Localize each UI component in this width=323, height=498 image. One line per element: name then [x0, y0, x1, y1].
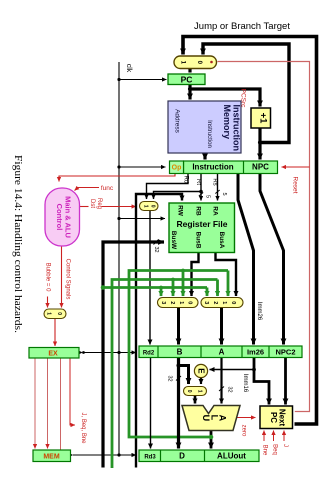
register file: [169, 203, 235, 253]
width label 32 on BusW: [153, 240, 159, 253]
wire E output to operand mux: [200, 378, 202, 385]
pin label Rs: [212, 178, 218, 185]
svg-text:1: 1: [45, 312, 51, 315]
svg-text:PC: PC: [181, 75, 193, 85]
node label J, Beq, Bne: [80, 412, 86, 444]
wire PC output to Instruction Memory address: [188, 85, 191, 100]
bubble mux: [44, 309, 66, 319]
figure caption: [12, 155, 24, 333]
svg-text:Beq: Beq: [272, 444, 278, 455]
svg-text:Rd2: Rd2: [143, 351, 155, 357]
wire Beq into NextPC (red): [273, 431, 275, 442]
sign extender E: [194, 364, 207, 377]
svg-text:Rs: Rs: [212, 178, 218, 185]
wire B branch to operand mux: [179, 366, 189, 385]
svg-text:32: 32: [167, 375, 173, 381]
wire J into NextPC (red): [283, 431, 285, 442]
svg-text:Rt: Rt: [195, 179, 201, 185]
wire BusA to forward mux2: [216, 253, 237, 296]
wire Rt field to RegDst mux and RB: [154, 174, 202, 201]
wire Reset (red arrow into NPC): [282, 166, 310, 168]
wire PC output branch to +1 adder: [190, 89, 260, 107]
svg-text:J: J: [282, 444, 288, 447]
operand mux 0/1: [184, 387, 207, 396]
wire A to ALU: [220, 358, 222, 404]
wire forward mux1 output to B: [177, 308, 180, 345]
svg-text:BusW: BusW: [170, 231, 177, 250]
svg-text:5: 5: [221, 192, 227, 195]
svg-text:B: B: [177, 348, 183, 357]
wire J Beq Bne branch controls (red): [70, 358, 75, 425]
wire MEM row to Rd3: [73, 454, 136, 456]
svg-text:Address: Address: [174, 109, 181, 134]
RegDst mux: [140, 202, 159, 211]
wire clk to PC: [119, 79, 167, 81]
register PC: [168, 74, 205, 85]
wire control signals (red, control box to bubble mux): [61, 246, 63, 308]
instruction memory: [168, 101, 242, 153]
svg-text:Reset: Reset: [292, 177, 299, 194]
wire clk vertical: [118, 62, 120, 455]
svg-text:BusA: BusA: [218, 232, 225, 249]
wire forward mux2 output to A: [220, 308, 223, 345]
wire Imm26 diagonal from Instruction to Im26: [238, 174, 254, 345]
svg-text:Imm26: Imm26: [256, 302, 262, 321]
node label Bubble = 0: [45, 263, 51, 293]
wire Instruction Memory output to Instruction register: [203, 153, 206, 160]
svg-text:PCSrc: PCSrc: [240, 89, 247, 109]
node label PCSrc: [240, 89, 247, 109]
svg-text:RA: RA: [212, 206, 219, 216]
pin label Rt: [195, 179, 201, 185]
svg-text:MEM: MEM: [43, 454, 60, 461]
svg-text:0: 0: [56, 312, 62, 315]
wire Rd field to RegDst mux: [147, 174, 189, 200]
svg-text:NPC: NPC: [252, 163, 269, 172]
wire BusB to forward mux1: [192, 253, 199, 296]
wire green forwarding H3 from write-back: [103, 288, 207, 297]
node label Beq: [272, 444, 278, 455]
wire NPC2 to NextPC: [284, 358, 287, 405]
svg-text:Rd3: Rd3: [144, 455, 156, 461]
wire EX to MEM control line 1 (red): [34, 358, 36, 449]
svg-text:Imm16: Imm16: [242, 374, 248, 393]
svg-text:clk: clk: [125, 64, 132, 73]
wire PC mux output to PC: [188, 69, 191, 73]
width label 5 on Rs: [215, 190, 227, 196]
ALU: [182, 406, 240, 431]
pin label Rd: [183, 176, 189, 184]
wire RegDst mux output to Rd2: [149, 211, 151, 345]
svg-text:ULA: ULA: [201, 415, 228, 424]
svg-text:Op: Op: [172, 165, 182, 172]
wire green forwarding H1 from ALU output: [129, 271, 228, 438]
wire PCSrc (red, NextPC to PC mux select): [218, 62, 310, 412]
adder +1: [251, 108, 271, 128]
forward mux1 (B operand): [158, 298, 199, 311]
pipeline register IF/ID: Op Instruction NPC: [170, 161, 278, 174]
node label zero: [241, 425, 247, 437]
wire B to D (store data): [177, 358, 180, 449]
svg-text:Bne: Bne: [262, 445, 268, 456]
node label Reg Dst: [89, 198, 102, 209]
svg-text:Figure 14.4: Handling control: Figure 14.4: Handling control hazards.: [12, 155, 24, 333]
pipeline register ID/EX: Rd2 B A Im26 NPC2: [139, 346, 302, 358]
node label Control Signals: [65, 259, 71, 300]
svg-text:RB: RB: [195, 206, 202, 216]
svg-text:0: 0: [149, 205, 155, 208]
node label func: [101, 185, 114, 192]
svg-text:ALUout: ALUout: [217, 452, 246, 461]
wire EX to MEM control line 3 (red): [60, 358, 62, 450]
svg-text:+1: +1: [258, 113, 269, 125]
wire operand mux output to ALU: [194, 396, 197, 404]
svg-text:Register File: Register File: [176, 219, 227, 229]
svg-text:Control Signals: Control Signals: [65, 259, 71, 300]
svg-text:J, Beq, Bne: J, Beq, Bne: [80, 412, 86, 444]
wire bubble mux output to EX (red): [54, 319, 56, 347]
register MEM (control pipeline): [33, 450, 71, 462]
svg-text:EX: EX: [48, 351, 58, 358]
wire green forwarding H2 with vertical x=112: [112, 280, 218, 469]
svg-text:BusB: BusB: [195, 232, 202, 249]
svg-text:32: 32: [227, 386, 233, 392]
wire func (red): [75, 188, 100, 191]
node label Bne: [262, 445, 268, 456]
svg-text:func: func: [101, 185, 114, 192]
PC mux (top multiplexer): [174, 56, 217, 69]
node label Jump or Branch Target: [194, 21, 290, 32]
register EX (control pipeline): [29, 348, 79, 359]
svg-text:Instruction: Instruction: [192, 163, 233, 172]
main and ALU control: [45, 188, 80, 246]
svg-text:1: 1: [143, 205, 149, 208]
wire EX to MEM control line 2 (red): [47, 358, 49, 449]
svg-text:A: A: [219, 348, 225, 357]
pipeline register EX/MEM: Rd3 D ALUout: [139, 450, 259, 462]
svg-text:Bubble = 0: Bubble = 0: [45, 263, 51, 293]
svg-text:zero: zero: [241, 425, 247, 437]
wire EX row to Rd2: [83, 352, 137, 354]
svg-text:Instruction: Instruction: [206, 120, 212, 148]
svg-text:1: 1: [197, 390, 203, 393]
wire jump or branch target feedback (NextPC output to PC mux input 1): [183, 37, 317, 425]
svg-text:Im26: Im26: [247, 348, 264, 357]
NextPC: [260, 406, 293, 429]
node label J: [282, 444, 288, 447]
node label Reset: [292, 177, 299, 194]
svg-text:Rd: Rd: [183, 176, 189, 184]
wire bubble=0 input (red): [47, 297, 49, 308]
wire Bne into NextPC (red): [263, 431, 265, 442]
wire clk to Register File write enable: [119, 218, 165, 220]
wire write-back data to BusW: [103, 242, 164, 468]
wire Op to Main control (red): [59, 173, 175, 182]
node junction dots black: [82, 78, 262, 457]
svg-text:RegDst: RegDst: [89, 198, 102, 209]
node label Imm26: [256, 302, 262, 321]
svg-text:Jump or Branch Target: Jump or Branch Target: [194, 21, 290, 32]
width label 32 on A: [219, 386, 233, 392]
svg-text:0: 0: [186, 390, 192, 393]
wire Im26 to NextPC: [254, 358, 269, 405]
svg-text:32: 32: [153, 246, 159, 252]
wire ALU zero to NextPC (red): [237, 417, 256, 419]
svg-text:5: 5: [205, 195, 211, 198]
forward mux2 (A operand): [201, 298, 243, 311]
wire RegDst (red, control to destination mux): [80, 206, 137, 208]
wire ALU output to ALUout: [210, 431, 213, 449]
node label Imm16: [242, 374, 248, 393]
wire Rd3 write register to RW: [136, 194, 182, 468]
svg-text:NPC2: NPC2: [275, 348, 295, 357]
node label clk: [125, 64, 132, 73]
width label 32 on B: [167, 375, 182, 381]
wire Rs field to RA: [217, 174, 219, 201]
wire clk to Op register: [119, 166, 166, 168]
wire incremented PC to PC mux input 0: [203, 44, 289, 143]
svg-text:D: D: [179, 452, 185, 461]
width label 5 on Rt: [199, 193, 211, 199]
wire NPC to NPC2 diagonal: [260, 174, 284, 345]
svg-text:RW: RW: [177, 205, 184, 217]
node junction dots green forwarding taps: [101, 269, 214, 440]
wire Rd2 to Rd3: [150, 358, 152, 449]
svg-text:E: E: [196, 368, 205, 374]
wire Im26 to sign extender E: [210, 369, 255, 371]
wire +1 adder output to NPC: [258, 128, 261, 160]
